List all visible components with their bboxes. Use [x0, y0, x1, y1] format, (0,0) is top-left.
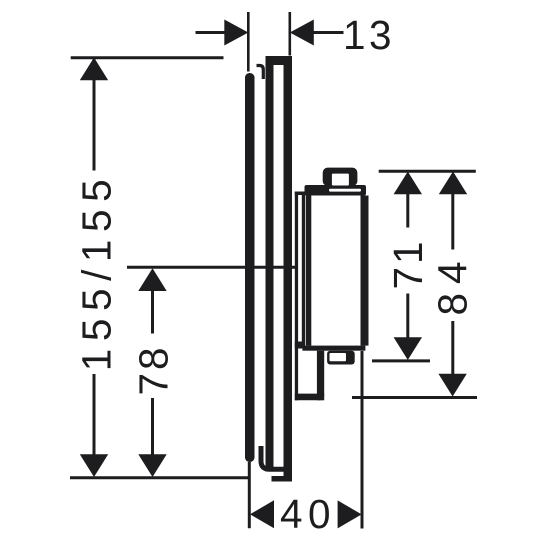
front plate top-left corner arc	[257, 66, 264, 80]
13 right arrow (left-pointing)	[290, 20, 314, 46]
svg-text:78: 78	[131, 344, 177, 395]
right top extension line	[379, 170, 476, 173]
knob flange	[305, 185, 367, 196]
71 bottom extension line	[372, 359, 430, 362]
78 top arrow (up)	[138, 268, 166, 291]
front plate left edge	[266, 56, 274, 472]
78 bottom arrow (down)	[138, 454, 166, 477]
bottom button window	[330, 353, 347, 361]
knob bottom button	[327, 351, 355, 365]
sleeve step	[295, 342, 306, 349]
sleeve left edge	[295, 192, 298, 401]
78 extension line (plate center)	[127, 266, 296, 269]
front plate right edge	[284, 56, 293, 482]
71 dimension line segments	[406, 193, 409, 228]
front plate top edge	[266, 56, 293, 65]
sleeve upper right edge	[302, 195, 306, 342]
svg-text:13: 13	[343, 12, 395, 58]
84 dimension line segments	[451, 193, 454, 250]
sleeve lower right edge	[317, 351, 324, 401]
cap window	[332, 174, 349, 186]
71 bottom arrow (down)	[394, 337, 422, 360]
71 top arrow (up)	[394, 172, 422, 195]
155/155 bottom arrow (down)	[80, 454, 108, 477]
84 top arrow (up)	[439, 172, 467, 195]
knob body left edge	[306, 196, 311, 346]
svg-text:84: 84	[429, 252, 475, 315]
78 dimension line segments	[151, 290, 154, 334]
top-left extension line (plate top)	[71, 56, 224, 59]
svg-text:71: 71	[385, 238, 431, 289]
knob bottom edge	[302, 346, 365, 351]
knob body right (front) edge	[361, 196, 369, 346]
84 bottom extension line	[352, 396, 477, 399]
svg-text:155/155: 155/155	[74, 172, 120, 372]
13 dimension tails	[196, 31, 226, 34]
13 left arrow (right-pointing)	[224, 20, 248, 46]
svg-text:40: 40	[280, 491, 336, 537]
flange chamfer slit	[329, 189, 361, 192]
155/155 top arrow (up)	[80, 58, 108, 81]
front plate bottom-left corner arc	[261, 446, 287, 469]
sleeve top edge	[295, 192, 306, 196]
155/155 dimension line segments	[93, 59, 96, 171]
sleeve bottom edge	[295, 394, 324, 401]
84 bottom arrow (down)	[438, 374, 466, 397]
knob top cap	[323, 168, 358, 186]
40 right arrow (right-pointing)	[338, 500, 362, 528]
front plate bottom outer edge	[272, 470, 293, 482]
40 extension lines	[248, 462, 251, 528]
13 extension lines	[247, 12, 250, 72]
40 left arrow (left-pointing)	[250, 500, 274, 528]
bottom-left extension line (plate bottom)	[70, 476, 249, 479]
back plate	[245, 73, 255, 462]
